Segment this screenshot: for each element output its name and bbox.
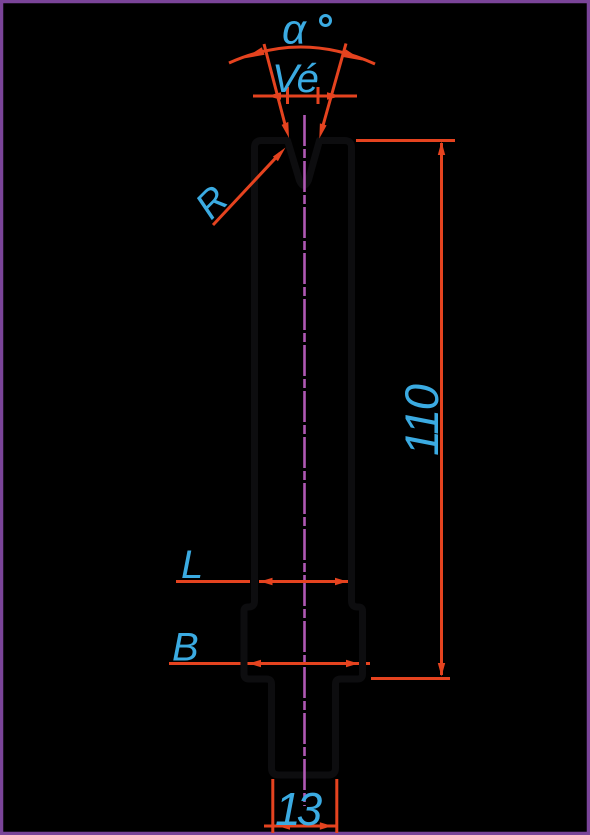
110 bottom extension line <box>371 677 450 680</box>
110 dimension line (vertical) <box>440 143 443 675</box>
110 top extension line <box>356 139 455 142</box>
R arrowhead <box>273 148 286 162</box>
svg-text:α: α <box>282 6 307 53</box>
die body outline (press-brake die cross-section) <box>244 141 363 776</box>
arc left arrowhead <box>245 47 265 58</box>
L dimension line (left part, gap at wall) <box>176 580 250 583</box>
svg-text:B: B <box>172 626 199 670</box>
B dimension line (left part) <box>169 662 241 665</box>
right radial line <box>322 44 346 129</box>
13 right extension line <box>335 779 338 833</box>
left radial arrowhead (down, at V corner) <box>282 122 289 138</box>
Ve dimension line (horizontal) <box>253 95 357 98</box>
B dimension line (right stub) <box>366 662 370 665</box>
L dimension line (inner part) <box>259 580 348 583</box>
L right arrowhead <box>335 578 348 585</box>
left radial line (V flank extension) <box>264 44 286 129</box>
angle dimension arc <box>229 47 375 64</box>
13 left arrowhead <box>278 822 291 829</box>
13 left extension line <box>271 779 274 833</box>
B left arrowhead <box>249 660 262 667</box>
centerline (dash-dot, orchid) <box>303 115 306 806</box>
svg-text:110: 110 <box>395 384 448 456</box>
svg-text:L: L <box>181 543 203 587</box>
right radial arrowhead <box>319 123 326 138</box>
L left arrowhead <box>260 578 273 585</box>
13 dimension line <box>264 825 337 828</box>
degree symbol <box>321 16 331 26</box>
13 right arrowhead <box>320 822 333 829</box>
Ve left extension tick <box>286 87 289 104</box>
svg-text:Vé: Vé <box>272 57 318 101</box>
B dimension line (inner part) <box>248 662 360 665</box>
B right arrowhead <box>346 660 359 667</box>
110 bottom arrowhead <box>438 663 445 677</box>
R leader line <box>213 153 280 225</box>
110 top arrowhead <box>438 142 445 156</box>
Ve left arrowhead <box>267 92 281 99</box>
Ve right arrowhead <box>327 92 341 99</box>
Ve right extension tick <box>317 87 320 104</box>
arc right arrowhead <box>343 49 362 60</box>
svg-text:13: 13 <box>275 783 323 835</box>
